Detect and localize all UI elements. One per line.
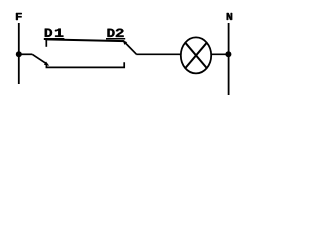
lamp (circle with cross)	[181, 37, 211, 73]
switch D1 label	[45, 29, 64, 37]
underline of label D1	[44, 38, 65, 40]
switch D2 label	[108, 29, 124, 37]
switch D2 blade with arrowhead	[122, 40, 136, 54]
wire: stub from F junction to D1 common pivot	[19, 53, 32, 55]
junction node on F line	[16, 51, 22, 57]
phase terminal label F	[16, 13, 22, 20]
wire: lamp to N junction	[211, 53, 228, 55]
neutral terminal label N	[227, 13, 232, 20]
wire: top traveler D1 to D2 (slightly sloped in scan)	[45, 39, 124, 41]
wire: D2 common to lamp	[136, 53, 181, 55]
wire: left hook contact of top traveler	[45, 40, 47, 47]
wire: phase F vertical line	[18, 23, 20, 84]
switch D1 blade with arrowhead	[32, 54, 49, 66]
wire: neutral N vertical line	[228, 23, 230, 95]
wire: bottom traveler D1 to D2 with hook contacts	[46, 62, 124, 67]
junction node on N line	[225, 51, 231, 57]
underline of label D2	[106, 38, 125, 40]
